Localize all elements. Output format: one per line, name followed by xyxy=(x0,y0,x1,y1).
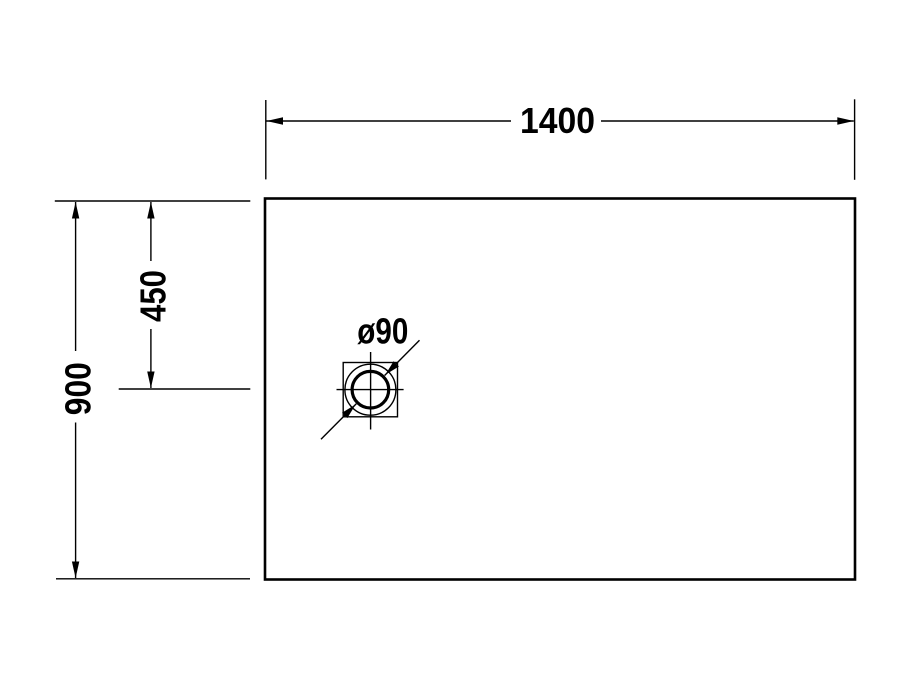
drain inner circle (waste) xyxy=(352,371,389,408)
dimension line 450 (bottom segment) xyxy=(150,329,152,388)
drain horizontal centerline xyxy=(337,389,404,391)
shower tray outline xyxy=(265,199,855,580)
svg-text:900: 900 xyxy=(57,362,98,415)
arrowhead 1400 right xyxy=(837,117,854,124)
extension line top of 900/450 dimensions xyxy=(55,200,251,202)
drain diameter leader line upper segment xyxy=(385,340,420,375)
extension line middle (450) xyxy=(119,388,251,390)
drain vertical centerline xyxy=(370,352,372,430)
leader arrowhead lower xyxy=(342,405,356,419)
svg-text:1400: 1400 xyxy=(520,100,595,141)
label 450 xyxy=(133,270,174,322)
drain outer circle xyxy=(345,364,396,415)
dimension line 1400 (right segment) xyxy=(601,120,854,122)
dimension line 1400 (left segment) xyxy=(267,120,512,122)
label 1400 xyxy=(520,100,595,141)
drain diameter leader line lower segment xyxy=(321,404,356,440)
arrowhead 900 bottom xyxy=(72,562,79,579)
arrowhead 900 top xyxy=(72,202,79,219)
dimension line 900 (bottom segment) xyxy=(75,423,77,579)
drain square frame xyxy=(343,363,397,417)
arrowhead 450 top xyxy=(147,202,154,219)
extension line bottom of 900 dimension xyxy=(56,578,250,580)
extension line left of 1400 dimension xyxy=(265,100,267,179)
arrowhead 450 bottom xyxy=(147,372,154,389)
dimension line 450 (top segment) xyxy=(150,202,152,261)
arrowhead 1400 left xyxy=(267,117,284,124)
label ø90 xyxy=(357,311,408,352)
svg-text:ø90: ø90 xyxy=(357,311,408,352)
label 900 xyxy=(57,362,98,415)
extension line right of 1400 dimension xyxy=(854,99,856,180)
svg-text:450: 450 xyxy=(133,270,174,322)
dimension line 900 (top segment) xyxy=(75,202,77,351)
leader arrowhead upper xyxy=(385,361,399,375)
